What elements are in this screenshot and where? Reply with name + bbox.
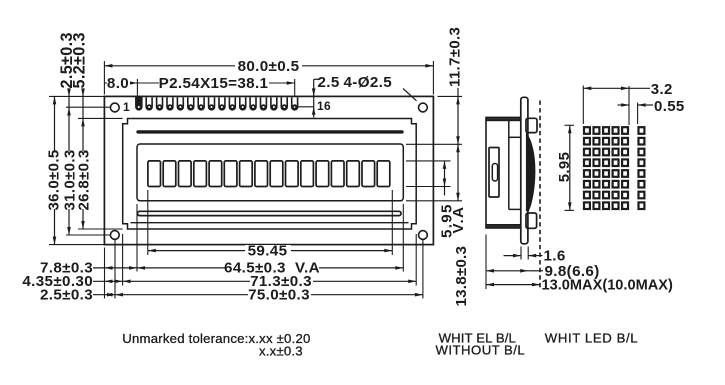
svg-text:5.2±0.3: 5.2±0.3 <box>70 32 88 88</box>
svg-text:11.7±0.3: 11.7±0.3 <box>447 27 464 87</box>
svg-text:1.6: 1.6 <box>544 248 566 265</box>
svg-text:59.45: 59.45 <box>248 242 288 259</box>
svg-text:WITHOUT B/L: WITHOUT B/L <box>436 343 526 358</box>
svg-text:13.0MAX(10.0MAX): 13.0MAX(10.0MAX) <box>542 278 674 294</box>
svg-text:P2.54X15=38.1: P2.54X15=38.1 <box>159 75 269 92</box>
svg-text:8.0: 8.0 <box>107 75 129 92</box>
svg-text:x.x±0.3: x.x±0.3 <box>259 344 303 359</box>
svg-text:V.A: V.A <box>450 206 467 234</box>
svg-text:1: 1 <box>123 100 130 114</box>
svg-text:3.2: 3.2 <box>651 81 673 98</box>
svg-text:16: 16 <box>317 99 331 113</box>
svg-text:0.55: 0.55 <box>654 98 685 115</box>
svg-text:13.8±0.3: 13.8±0.3 <box>453 246 470 307</box>
svg-text:26.8±0.3: 26.8±0.3 <box>76 149 93 210</box>
svg-text:36.0±0.5: 36.0±0.5 <box>46 149 63 210</box>
svg-text:75.0±0.3: 75.0±0.3 <box>248 286 310 303</box>
svg-text:5.95: 5.95 <box>556 152 573 183</box>
svg-text:4-Ø2.5: 4-Ø2.5 <box>344 74 393 91</box>
svg-text:80.0±0.5: 80.0±0.5 <box>238 58 300 75</box>
svg-text:WHIT LED B/L: WHIT LED B/L <box>545 331 638 346</box>
svg-text:2.5: 2.5 <box>318 74 340 91</box>
svg-text:2.5±0.3: 2.5±0.3 <box>40 286 93 303</box>
